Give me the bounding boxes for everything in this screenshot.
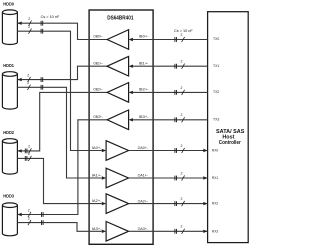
arrowhead into host RX2 [203,202,207,205]
capacitor Cs HDD0 TX [41,29,43,34]
capacitor Cs HDD3 RX [42,212,44,217]
lane mark host TX0 [182,37,185,42]
svg-text:IA1+-: IA1+- [92,174,102,178]
svg-text:2: 2 [181,225,183,229]
arrowhead into OA3 buffer [102,230,106,233]
wire HDD1 TX (HDD1 to IA1 input) [17,87,101,178]
arrowhead into OB1 buffer [129,65,133,68]
capacitor Cs HDD0 RX [41,21,43,26]
capacitor Cs HDD1 RX [41,77,43,82]
lane mark HDD0 TX [29,29,32,34]
hard drive HDD0 cylinder [2,10,17,45]
arrowhead into HDD1 [17,78,21,81]
capacitor Cs host RX0 [175,148,177,153]
svg-text:TX3: TX3 [213,117,219,121]
svg-text:RX0: RX0 [212,149,218,153]
svg-text:OA0+-: OA0+- [138,146,148,150]
svg-text:IB2+-: IB2+- [139,88,149,92]
svg-text:TX0: TX0 [213,37,219,41]
svg-text:IB0+-: IB0+- [139,35,149,39]
svg-text:2: 2 [181,197,183,201]
svg-text:2: 2 [28,17,30,21]
svg-text:OA1+-: OA1+- [138,174,148,178]
arrowhead into HDD3 [17,213,21,216]
svg-text:OB1+-: OB1+- [93,61,103,65]
wire IB2 input (host TX2 to buffer) [133,91,208,93]
svg-text:Cs > 10 nF: Cs > 10 nF [41,14,60,19]
svg-text:2: 2 [28,152,30,156]
lane mark host RX2 [182,201,185,206]
svg-text:RX1: RX1 [212,176,218,180]
svg-text:2: 2 [27,81,29,85]
svg-text:HDD1: HDD1 [3,63,14,68]
lane mark host RX3 [182,229,185,234]
capacitor Cs HDD1 TX [41,85,43,90]
lane mark HDD1 RX [28,77,31,82]
capacitor Cs host TX3 [175,117,177,122]
svg-text:TX2: TX2 [213,90,219,94]
wire OA1 output to host RX1 [129,177,208,179]
svg-text:Controller: Controller [219,140,241,146]
lane mark host TX2 [182,90,185,95]
svg-text:OA2+-: OA2+- [138,199,148,203]
svg-text:2: 2 [181,144,183,148]
arrowhead into HDD2 [17,149,21,152]
capacitor Cs host RX2 [175,201,177,206]
wire HDD2 TX (HDD2 to IA2 input) [17,158,101,203]
lane mark host TX3 [182,117,185,122]
lane mark HDD2 TX [28,156,31,161]
wire OA2 output to host RX2 [129,203,208,205]
svg-text:2: 2 [181,171,183,175]
arrowhead into OA1 buffer [102,176,106,179]
wire IB1 input (host TX1 to buffer) [133,65,208,67]
svg-text:HDD3: HDD3 [3,194,14,199]
arrowhead into OB0 buffer [129,38,133,41]
svg-text:2: 2 [181,33,183,37]
svg-text:IA0+-: IA0+- [92,146,102,150]
capacitor Cs HDD2 RX [25,149,27,154]
lane mark host TX1 [182,64,185,69]
wire HDD0 RX (OB0 output to HDD0) [17,23,107,39]
svg-text:2: 2 [28,25,30,29]
svg-text:RX2: RX2 [212,202,218,206]
svg-text:DS64BR401: DS64BR401 [107,16,133,22]
capacitor Cs host RX3 [175,229,177,234]
arrowhead into host RX0 [203,149,207,152]
svg-text:OA3+-: OA3+- [138,227,148,231]
buffer OA1 (right-pointing) [106,168,129,188]
svg-text:HDD0: HDD0 [3,2,14,7]
capacitor Cs HDD2 TX [25,156,27,161]
svg-text:TX1: TX1 [213,64,219,68]
svg-text:IB3+-: IB3+- [139,115,149,119]
arrowhead into OB2 buffer [129,91,133,94]
svg-text:OB3+-: OB3+- [93,115,103,119]
svg-text:RX3: RX3 [212,229,218,233]
arrowhead into host RX1 [203,176,207,179]
svg-text:2: 2 [181,113,183,117]
svg-text:IA2+-: IA2+- [92,199,102,203]
hard drive HDD3 cylinder [2,203,17,236]
capacitor Cs HDD3 TX [42,220,44,225]
buffer OA2 (right-pointing) [106,194,129,214]
wire HDD1 RX (OB1 output to HDD1) [17,66,107,79]
svg-text:Cs > 10 nF: Cs > 10 nF [174,28,193,33]
svg-text:2: 2 [27,73,29,77]
lane mark HDD2 RX [28,148,31,153]
wire OA3 output to host RX3 [129,230,208,232]
svg-text:OB2+-: OB2+- [93,88,103,92]
buffer OB0 (left-pointing) [107,30,129,50]
capacitor Cs host RX1 [175,176,177,181]
buffer OB3 (left-pointing) [107,110,129,130]
SATA/SAS host controller box [208,12,249,243]
lane mark HDD0 RX [29,21,32,26]
lane mark HDD3 TX [28,220,31,225]
svg-text:2: 2 [181,60,183,64]
wire HDD3 TX (HDD3 to IA3 input) [17,223,101,232]
wire IB3 input (host TX3 to buffer) [133,119,208,121]
capacitor Cs host TX1 [175,64,177,69]
wire HDD0 TX (HDD0 to IA0 input) [17,31,101,150]
arrowhead into OB3 buffer [129,118,133,121]
capacitor Cs host TX0 [175,37,177,42]
svg-text:2: 2 [181,86,183,90]
svg-text:OB0+-: OB0+- [93,35,103,39]
svg-text:2: 2 [28,208,30,212]
lane mark HDD1 TX [28,85,31,90]
capacitor Cs host TX2 [175,90,177,95]
lane mark HDD3 RX [28,212,31,217]
buffer OA0 (right-pointing) [106,141,129,161]
wire IB0 input (host TX0 to buffer) [133,39,208,41]
arrowhead into host RX3 [203,230,207,233]
arrowhead into OA0 buffer [102,149,106,152]
svg-text:IB1+-: IB1+- [139,61,149,65]
wire HDD3 RX (OB3 output to HDD3) [17,120,107,215]
wire HDD2 RX (OB2 output to HDD2) [17,92,107,150]
repeater U1 DS64BR401 box [89,10,153,244]
lane mark host RX0 [182,148,185,153]
lane mark host RX1 [182,175,185,180]
svg-text:IA3+-: IA3+- [92,227,102,231]
buffer OA3 (right-pointing) [106,222,129,242]
svg-text:2: 2 [28,145,30,149]
hard drive HDD1 cylinder [2,72,17,109]
wire OA0 output to host RX0 [129,150,208,152]
svg-text:HDD2: HDD2 [3,130,14,135]
arrowhead into HDD0 [17,22,21,25]
hard drive HDD2 cylinder [2,139,17,174]
arrowhead into OA2 buffer [102,202,106,205]
buffer OB2 (left-pointing) [107,83,129,103]
buffer OB1 (left-pointing) [107,56,129,76]
svg-text:2: 2 [28,216,30,220]
